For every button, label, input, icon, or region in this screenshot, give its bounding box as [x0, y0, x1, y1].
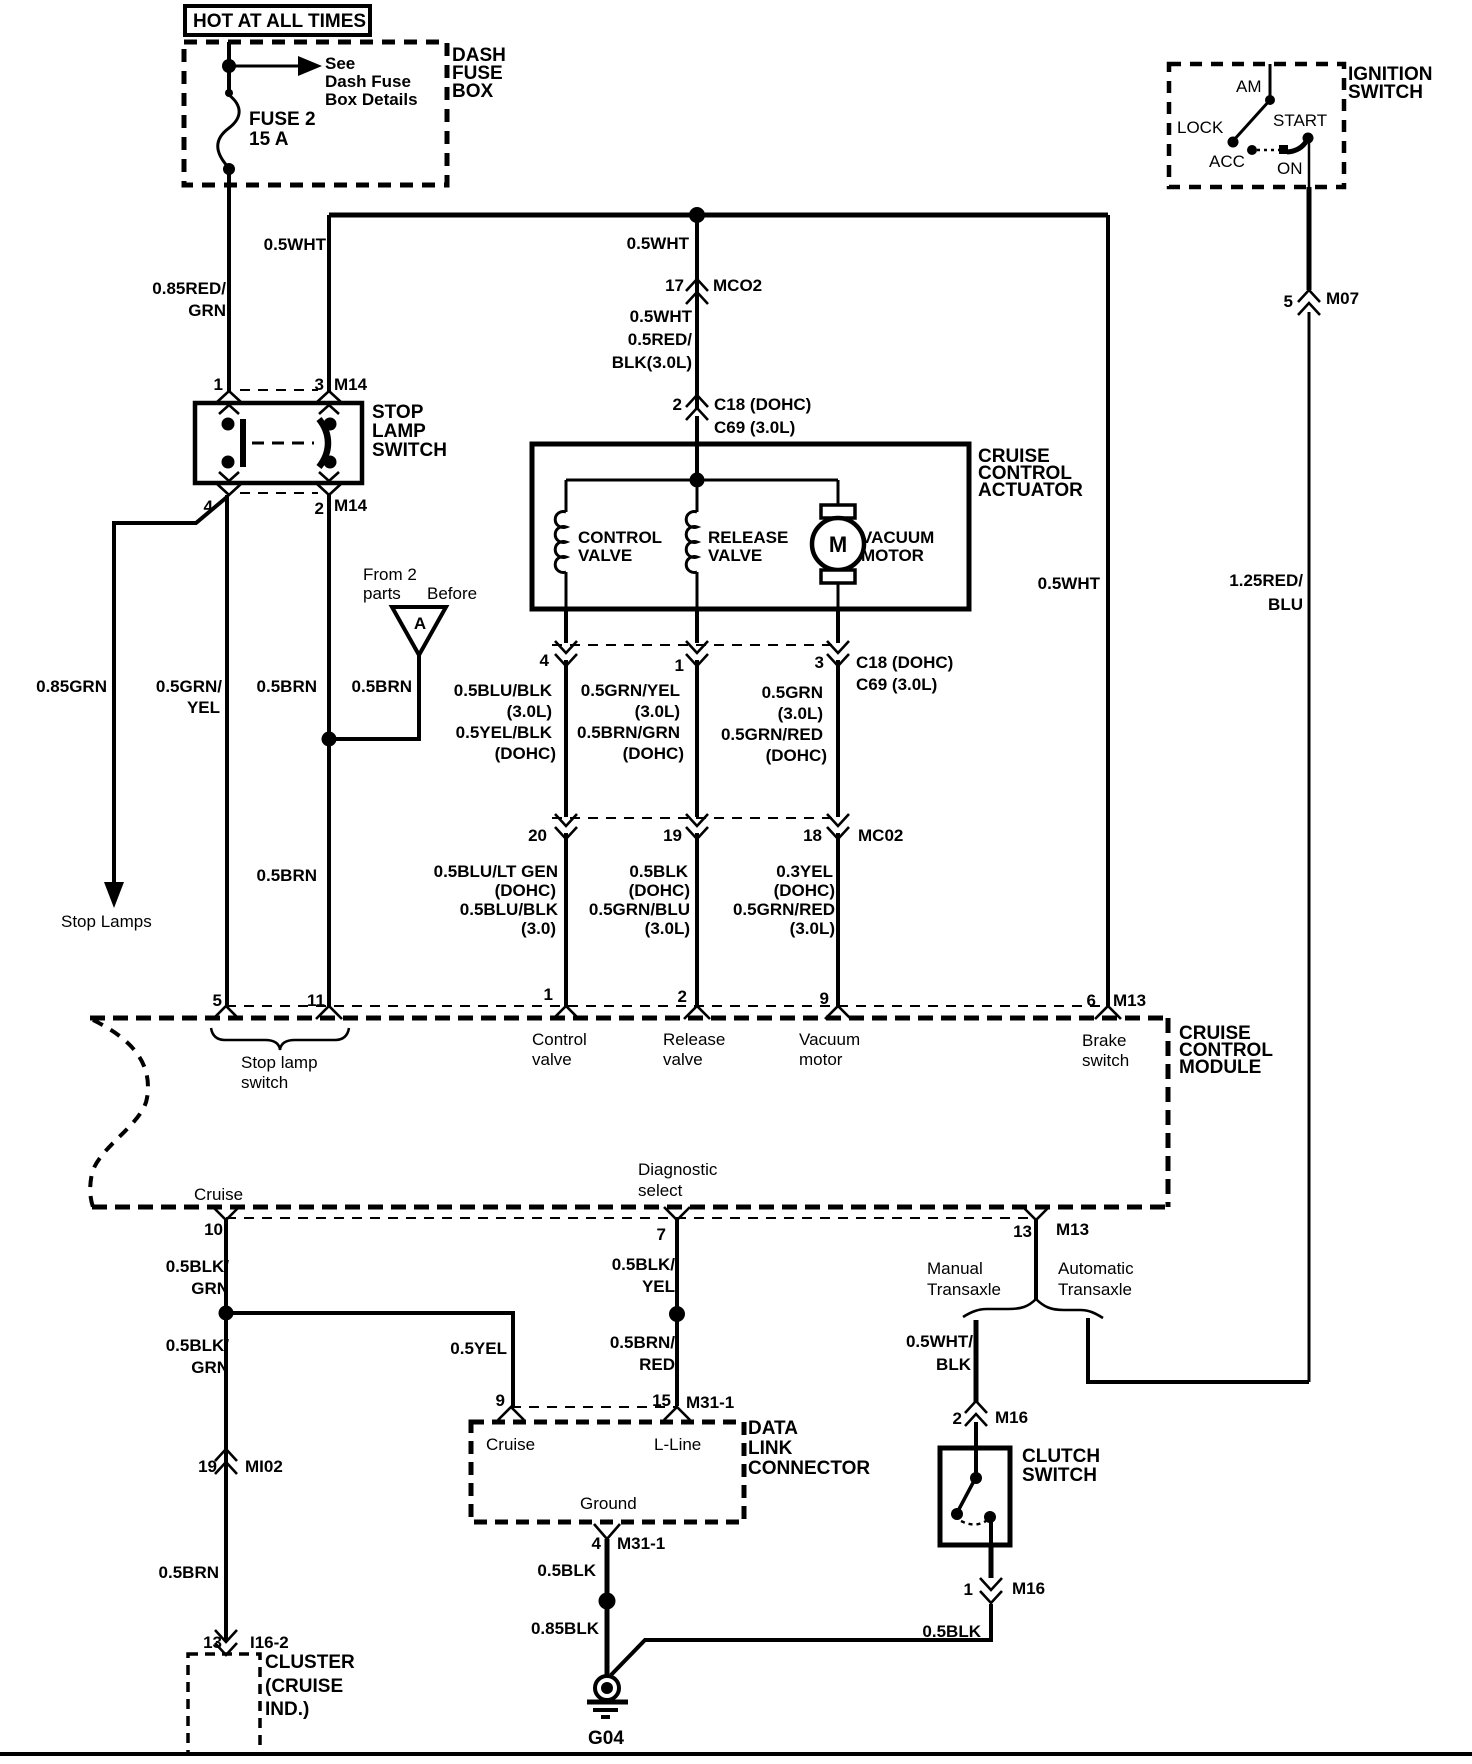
wire C18 connector to actuator [695, 416, 699, 480]
svg-text:G04: G04 [588, 1728, 624, 1749]
svg-text:0.5BLU/LT GEN: 0.5BLU/LT GEN [434, 862, 558, 881]
control valve coil [555, 480, 566, 609]
module bottom connector dashed line [226, 1217, 1036, 1219]
svg-text:2: 2 [673, 395, 682, 414]
svg-text:select: select [638, 1181, 683, 1200]
col 19 wire labels [589, 862, 690, 938]
svg-text:CLUSTER: CLUSTER [265, 1652, 355, 1673]
START contact dot [1303, 133, 1314, 144]
svg-text:ACTUATOR: ACTUATOR [978, 480, 1083, 501]
connector row MC02 dashed line [552, 817, 840, 819]
svg-text:0.5WHT/: 0.5WHT/ [906, 1332, 973, 1351]
svg-text:(DOHC): (DOHC) [495, 881, 556, 900]
DLC pin 4 chevron with M31-1 [592, 1524, 666, 1553]
arrow to see dash fuse box details [229, 56, 322, 76]
connector 5 M07 [1284, 289, 1360, 315]
svg-text:ON: ON [1277, 159, 1303, 178]
svg-text:4: 4 [540, 651, 550, 670]
svg-text:Cruise: Cruise [486, 1435, 535, 1454]
release valve pin name [663, 1030, 725, 1069]
pin 1 connector (top left) [214, 375, 242, 414]
svg-text:YEL: YEL [642, 1277, 675, 1296]
svg-text:FUSE 2: FUSE 2 [249, 109, 316, 130]
svg-text:From 2: From 2 [363, 565, 417, 584]
svg-text:ACC: ACC [1209, 152, 1245, 171]
svg-text:C18 (DOHC): C18 (DOHC) [714, 395, 811, 414]
wire M07 down right side [1308, 312, 1311, 1382]
svg-text:BOX: BOX [452, 81, 494, 102]
release valve label [708, 528, 788, 565]
svg-text:RELEASE: RELEASE [708, 528, 788, 547]
svg-text:BLK: BLK [936, 1355, 972, 1374]
wire control valve to connector row C18 [564, 609, 568, 643]
svg-text:19: 19 [663, 826, 682, 845]
svg-text:M14: M14 [334, 375, 368, 394]
svg-text:SWITCH: SWITCH [1022, 1465, 1097, 1486]
svg-text:0.5WHT: 0.5WHT [264, 235, 327, 254]
svg-text:2: 2 [678, 987, 687, 1006]
cluster box (dashed) [188, 1654, 260, 1754]
wire DLC pin 4 to ground [605, 1539, 610, 1677]
wire col 19 to module pin 2 [695, 833, 699, 1006]
dashed connector line pins 4-2 [240, 492, 318, 494]
wire 0.5WHT left drop to pin 3 [327, 215, 331, 391]
vacuum motor M [812, 480, 864, 609]
svg-text:motor: motor [799, 1050, 843, 1069]
release valve wire labels [577, 681, 684, 763]
svg-text:C18 (DOHC): C18 (DOHC) [856, 653, 953, 672]
ignition switch internals [1177, 64, 1327, 187]
node dot below fuse [223, 163, 235, 175]
svg-text:CLUTCH: CLUTCH [1022, 1446, 1100, 1467]
svg-text:9: 9 [820, 989, 829, 1008]
module left wavy boundary [90, 1020, 148, 1207]
svg-text:1: 1 [544, 985, 553, 1004]
svg-text:YEL: YEL [187, 698, 220, 717]
svg-text:LAMP: LAMP [372, 421, 426, 442]
control valve wire labels [454, 681, 556, 763]
clutch switch title [1022, 1446, 1100, 1486]
svg-text:1.25RED/: 1.25RED/ [1229, 571, 1303, 590]
branch split right (automatic) [1036, 1299, 1103, 1318]
svg-text:BLU: BLU [1268, 595, 1303, 614]
wire pin 4 diagonal to stop lamps feed [114, 497, 227, 884]
svg-text:0.5BRN/GRN: 0.5BRN/GRN [577, 723, 680, 742]
svg-text:7: 7 [657, 1225, 666, 1244]
wire module pin 7 down [675, 1220, 679, 1406]
svg-text:0.5WHT: 0.5WHT [630, 307, 693, 326]
dash fuse box title [452, 45, 506, 102]
svg-text:0.5BRN/: 0.5BRN/ [610, 1333, 675, 1352]
svg-text:MOTOR: MOTOR [861, 546, 924, 565]
bottom page border line [0, 1752, 1472, 1756]
cluster title [265, 1652, 355, 1720]
svg-text:Before: Before [427, 584, 477, 603]
svg-text:GRN: GRN [191, 1358, 229, 1377]
module pin 13 chevron with M13 [1013, 1207, 1089, 1241]
svg-text:IND.): IND.) [265, 1699, 309, 1720]
module pin 11 chevron [307, 991, 342, 1019]
svg-text:(DOHC): (DOHC) [766, 746, 827, 765]
cruise control actuator box [532, 444, 969, 609]
module bottom boundary (dashed) [92, 1205, 1168, 1210]
svg-text:3: 3 [315, 375, 324, 394]
svg-text:Automatic: Automatic [1058, 1259, 1134, 1278]
svg-text:M16: M16 [1012, 1579, 1045, 1598]
svg-text:HOT AT ALL TIMES: HOT AT ALL TIMES [193, 11, 366, 32]
module pin 7 chevron [657, 1207, 690, 1244]
svg-text:(DOHC): (DOHC) [774, 881, 835, 900]
module pin 6 chevron with M13 [1087, 991, 1147, 1019]
actuator internal bus wire [566, 479, 838, 482]
svg-text:(3.0L): (3.0L) [790, 919, 835, 938]
see dash fuse box details text [325, 54, 418, 109]
wire col 20 to module pin 1 [564, 833, 568, 1006]
0.5BLK/YEL label [612, 1255, 676, 1296]
node junction dot on 0.5BRN [322, 732, 337, 747]
module pin 10 chevron [204, 1207, 239, 1239]
wire control valve col to MC02 row [564, 660, 568, 817]
svg-text:M: M [829, 532, 847, 557]
vacuum motor label [861, 528, 934, 565]
svg-text:SWITCH: SWITCH [372, 440, 447, 461]
svg-text:Transaxle: Transaxle [1058, 1280, 1132, 1299]
control valve label [578, 528, 662, 565]
svg-text:GRN: GRN [188, 301, 226, 320]
brace under stop lamp switch pins [211, 1028, 349, 1050]
DLC top connector dashed line [511, 1406, 677, 1408]
svg-text:1: 1 [214, 375, 223, 394]
MC02 pin 19 chevrons [686, 814, 708, 839]
0.5BRN/RED label [610, 1333, 675, 1374]
wire vacuum motor to connector row C18 [836, 609, 840, 643]
svg-text:19: 19 [198, 1457, 217, 1476]
stop lamp switch pin name [241, 1053, 318, 1092]
wire module pin 10 down (0.5BLK/GRN) [224, 1220, 228, 1641]
svg-text:C69 (3.0L): C69 (3.0L) [856, 675, 937, 694]
svg-text:0.5GRN/BLU: 0.5GRN/BLU [589, 900, 690, 919]
svg-text:CONTROL: CONTROL [578, 528, 662, 547]
ignition switch title [1348, 64, 1432, 103]
pin 4 connector (bottom left) [204, 472, 242, 516]
MC02 pin 18 chevrons [827, 814, 849, 839]
svg-text:0.5GRN/: 0.5GRN/ [156, 677, 222, 696]
svg-text:18: 18 [803, 826, 822, 845]
wire ground diagonal to bottom bus [611, 1604, 991, 1675]
hot at all times label box [185, 6, 370, 35]
svg-text:5: 5 [1284, 292, 1293, 311]
svg-text:0.5BLK: 0.5BLK [537, 1561, 596, 1580]
svg-text:parts: parts [363, 584, 401, 603]
svg-text:0.5BRN: 0.5BRN [257, 866, 317, 885]
svg-text:RED: RED [639, 1355, 675, 1374]
svg-text:Vacuum: Vacuum [799, 1030, 860, 1049]
svg-text:6: 6 [1087, 991, 1096, 1010]
svg-text:STOP: STOP [372, 402, 424, 423]
svg-text:0.5YEL/BLK: 0.5YEL/BLK [456, 723, 553, 742]
svg-text:switch: switch [1082, 1051, 1129, 1070]
svg-text:valve: valve [663, 1050, 703, 1069]
wire M16 to clutch switch box [974, 1422, 978, 1477]
AM contact dot [1265, 95, 1275, 105]
svg-text:0.5GRN/RED: 0.5GRN/RED [721, 725, 823, 744]
svg-text:10: 10 [204, 1220, 223, 1239]
col 18 wire labels [733, 862, 835, 938]
connector 19 MI02 [198, 1449, 283, 1476]
DLC pin 15 chevron with M31-1 [652, 1391, 734, 1420]
svg-text:A: A [414, 614, 426, 633]
node junction on bus [689, 207, 705, 223]
vacuum motor pin name [799, 1030, 860, 1069]
wire release valve col to MC02 row [695, 660, 699, 817]
svg-text:Ground: Ground [580, 1494, 637, 1513]
svg-text:1: 1 [675, 656, 684, 675]
svg-text:2: 2 [315, 499, 324, 518]
clutch switch box [940, 1448, 1010, 1545]
svg-text:CONNECTOR: CONNECTOR [748, 1458, 870, 1479]
svg-text:(3.0L): (3.0L) [507, 702, 552, 721]
svg-text:(CRUISE: (CRUISE [265, 1676, 343, 1697]
module top connector dashed line [226, 1005, 1108, 1007]
svg-text:M13: M13 [1056, 1220, 1089, 1239]
svg-text:0.5BRN: 0.5BRN [352, 677, 412, 696]
small node dot above fuse [225, 89, 233, 97]
fuse 2 15A label [249, 109, 316, 150]
svg-text:3: 3 [815, 653, 824, 672]
0.5WHT/BLK label [906, 1332, 973, 1374]
wire module pin 13 down [1034, 1220, 1038, 1300]
node junction dot at fuse feed [222, 59, 236, 73]
dashed actuating link inside switch [252, 442, 314, 445]
svg-text:17: 17 [665, 276, 684, 295]
wire pin 4 to module pin 5 (0.5GRN/YEL) [225, 495, 229, 1006]
col 20 wire labels [434, 862, 559, 938]
svg-text:2: 2 [953, 1409, 962, 1428]
top bus wire 0.5WHT [329, 213, 1108, 218]
svg-text:Dash Fuse: Dash Fuse [325, 72, 411, 91]
svg-text:Stop lamp: Stop lamp [241, 1053, 318, 1072]
svg-text:Box Details: Box Details [325, 90, 418, 109]
connector pin 3 chevrons [827, 641, 849, 666]
clutch switch contacts [951, 1448, 996, 1545]
svg-text:M31-1: M31-1 [686, 1393, 734, 1412]
wire 0.5WHT right vertical to brake switch pin 6 [1106, 215, 1110, 1006]
svg-text:VALVE: VALVE [578, 546, 632, 565]
pin 3 connector (top right) with M14 [315, 375, 368, 414]
wire from fuse box top to fuse [227, 42, 231, 95]
svg-text:BLK(3.0L): BLK(3.0L) [612, 353, 692, 372]
svg-text:0.5BLK: 0.5BLK [629, 862, 688, 881]
svg-text:MODULE: MODULE [1179, 1057, 1261, 1078]
switch contact left [222, 418, 244, 469]
module right boundary (dashed) [1166, 1018, 1171, 1207]
svg-text:15: 15 [652, 1391, 671, 1410]
svg-text:13: 13 [1013, 1222, 1032, 1241]
svg-text:0.5BLK/: 0.5BLK/ [166, 1336, 230, 1355]
connector 1 M16 [964, 1578, 1046, 1603]
svg-text:Manual: Manual [927, 1259, 983, 1278]
svg-text:M07: M07 [1326, 289, 1359, 308]
wire fuse to stop lamp switch pin 1 (0.85RED/GRN) [227, 169, 231, 391]
AM stub wire [1269, 64, 1272, 97]
brake switch pin name [1082, 1031, 1129, 1070]
wire vacuum motor col to MC02 row [836, 660, 840, 817]
dash fuse box (dashed) [184, 42, 447, 185]
wire manual branch to clutch switch (0.5WHT/BLK) [974, 1320, 979, 1402]
vacuum motor wire labels [721, 683, 827, 765]
0.5BLK/GRN label upper [166, 1257, 230, 1298]
svg-text:1: 1 [964, 1580, 973, 1599]
wire into actuator from pin 2 [695, 444, 699, 480]
wire release valve to connector row C18 [695, 609, 699, 643]
from 2 parts before text [363, 565, 477, 603]
release valve coil [686, 480, 697, 609]
svg-text:Brake: Brake [1082, 1031, 1126, 1050]
svg-text:MI02: MI02 [245, 1457, 283, 1476]
svg-text:0.85RED/: 0.85RED/ [152, 279, 226, 298]
svg-text:15 A: 15 A [249, 129, 289, 150]
cruise control module title [1179, 1023, 1273, 1078]
data link connector title [748, 1418, 870, 1479]
svg-text:13: 13 [203, 1633, 222, 1652]
svg-text:AM: AM [1236, 77, 1262, 96]
svg-text:0.5GRN/RED: 0.5GRN/RED [733, 900, 835, 919]
connector 13 I16-2 [203, 1630, 289, 1655]
svg-text:0.5BLK/: 0.5BLK/ [612, 1255, 676, 1274]
stub wire from START down [1308, 141, 1311, 187]
wire col 18 to module pin 9 [836, 833, 840, 1006]
dotted link ACC to ON [1257, 149, 1280, 152]
svg-text:See: See [325, 54, 355, 73]
svg-text:(DOHC): (DOHC) [495, 744, 556, 763]
svg-text:5: 5 [213, 991, 222, 1010]
svg-text:0.5BLU/BLK: 0.5BLU/BLK [460, 900, 559, 919]
node splice dot on ground wire [599, 1593, 616, 1610]
svg-text:0.5BLK/: 0.5BLK/ [166, 1257, 230, 1276]
connector 2 C18/C69 [673, 395, 812, 437]
wire bus to connector MCO2 [695, 215, 699, 410]
svg-text:0.5BRN: 0.5BRN [257, 677, 317, 696]
wire pin 2 to module pin 11 (0.5BRN) [327, 495, 331, 1006]
stop lamp switch title [372, 402, 447, 461]
0.5BLK/GRN label lower [166, 1336, 230, 1377]
svg-text:Cruise: Cruise [194, 1185, 243, 1204]
fuse F2 squiggle symbol [218, 95, 239, 168]
svg-text:0.5BRN: 0.5BRN [159, 1563, 219, 1582]
svg-text:0.5BLU/BLK: 0.5BLU/BLK [454, 681, 553, 700]
rotor arc ON to START [1287, 140, 1307, 152]
svg-text:L-Line: L-Line [654, 1435, 701, 1454]
svg-text:START: START [1273, 111, 1327, 130]
connector pin 4 chevrons [555, 641, 577, 666]
svg-text:(DOHC): (DOHC) [629, 881, 690, 900]
connector 17 MCO2 [665, 276, 762, 304]
svg-text:11: 11 [307, 991, 325, 1010]
node splice dot on pin 7 wire [669, 1306, 685, 1322]
svg-text:Control: Control [532, 1030, 587, 1049]
diagnostic select pin name [638, 1160, 718, 1200]
dashed connector line pins 1-3 [240, 389, 318, 391]
svg-text:switch: switch [241, 1073, 288, 1092]
connector row C18/C69 dashed line [552, 644, 840, 646]
data link connector box (dashed) [471, 1422, 744, 1522]
svg-text:20: 20 [528, 826, 547, 845]
module pin 5 chevron [213, 991, 239, 1019]
svg-text:VACUUM: VACUUM [861, 528, 934, 547]
C18 C69 connector label [856, 653, 953, 694]
svg-text:(DOHC): (DOHC) [623, 744, 684, 763]
1.25RED/BLU wire label [1229, 571, 1303, 614]
arrowhead to stop lamps [104, 882, 124, 908]
wire triangle A to 0.5BRN junction [333, 655, 419, 739]
svg-text:valve: valve [532, 1050, 572, 1069]
svg-text:LOCK: LOCK [1177, 118, 1224, 137]
svg-text:M13: M13 [1113, 991, 1146, 1010]
svg-text:MC02: MC02 [858, 826, 903, 845]
0.5GRN/YEL label [156, 677, 222, 717]
svg-text:Stop Lamps: Stop Lamps [61, 912, 152, 931]
svg-text:Diagnostic: Diagnostic [638, 1160, 718, 1179]
svg-text:4: 4 [592, 1534, 602, 1553]
svg-text:Release: Release [663, 1030, 725, 1049]
svg-text:M16: M16 [995, 1408, 1028, 1427]
ON contact square dot [1279, 145, 1288, 154]
switch contact right [319, 418, 337, 469]
ACC contact dot [1247, 145, 1257, 155]
svg-text:0.85GRN: 0.85GRN [36, 677, 107, 696]
rotor arm to LOCK [1233, 100, 1270, 141]
svg-text:0.5GRN: 0.5GRN [762, 683, 823, 702]
connector pin 1 chevrons [686, 641, 708, 666]
svg-text:0.5YEL: 0.5YEL [450, 1339, 507, 1358]
ground symbol G04 [587, 1676, 628, 1717]
svg-text:SWITCH: SWITCH [1348, 82, 1423, 103]
wire ignition to connector M07 (1.25RED/BLU) [1307, 187, 1312, 290]
automatic transaxle label [1058, 1259, 1134, 1299]
node junction dot 0.5YEL branch [219, 1306, 234, 1321]
wire bottom corner to automatic transaxle branch [1088, 1318, 1309, 1382]
ignition switch box (dashed) [1169, 64, 1344, 187]
svg-text:0.5GRN/YEL: 0.5GRN/YEL [581, 681, 680, 700]
svg-text:(3.0L): (3.0L) [778, 704, 823, 723]
svg-text:Transaxle: Transaxle [927, 1280, 1001, 1299]
wire 0.5YEL to DLC pin 9 [226, 1313, 513, 1406]
0.85RED/GRN wire label [152, 279, 226, 320]
svg-text:0.3YEL: 0.3YEL [776, 862, 833, 881]
svg-text:MCO2: MCO2 [713, 276, 762, 295]
cruise control module top boundary (dashed) [90, 1016, 1168, 1021]
branch split left (manual) [963, 1299, 1036, 1317]
svg-text:LINK: LINK [748, 1438, 793, 1459]
LOCK contact dot [1228, 137, 1239, 148]
manual transaxle label [927, 1259, 1001, 1299]
connector 2 M16 [953, 1401, 1029, 1428]
wire clutch switch to connector 1 M16 [989, 1545, 994, 1578]
svg-text:(3.0L): (3.0L) [645, 919, 690, 938]
wire labels 0.5WHT 0.5RED/BLK [612, 307, 693, 372]
svg-text:0.85BLK: 0.85BLK [531, 1619, 600, 1638]
svg-text:C69 (3.0L): C69 (3.0L) [714, 418, 795, 437]
svg-text:9: 9 [496, 1391, 505, 1410]
DLC pin 9 chevron [496, 1391, 524, 1420]
cruise control actuator title [978, 446, 1083, 501]
stop lamp switch box [195, 403, 362, 483]
svg-text:0.5WHT: 0.5WHT [1038, 574, 1101, 593]
svg-text:I16-2: I16-2 [250, 1633, 289, 1652]
MC02 pin 20 chevrons [555, 814, 577, 839]
svg-text:M31-1: M31-1 [617, 1534, 665, 1553]
svg-text:0.5RED/: 0.5RED/ [628, 330, 693, 349]
